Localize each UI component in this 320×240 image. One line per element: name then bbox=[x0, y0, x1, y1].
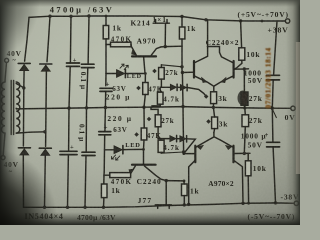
resistor 10k top bbox=[239, 48, 245, 60]
wire K214 node to 1k bbox=[165, 45, 182, 47]
resistor 3k top bbox=[211, 92, 217, 104]
long vertical feedback line bbox=[182, 46, 184, 153]
transformer T1 secondary bbox=[16, 82, 20, 133]
transistor Q6 A970 pair right bbox=[232, 146, 234, 163]
op wire: node down to LED wire / 220u bbox=[105, 74, 107, 86]
resistor 470K top bbox=[111, 42, 132, 47]
capacitor 220u top bbox=[100, 88, 112, 91]
capacitor 1000u/50V top chain bbox=[274, 21, 277, 75]
diode D3 bbox=[18, 147, 30, 149]
LED LED1 bbox=[117, 70, 125, 78]
resistor 47K top bbox=[144, 74, 146, 83]
capacitor 0.1u top bbox=[82, 64, 95, 67]
timestamp 07/01/2013 18:14 bbox=[264, 47, 272, 108]
resistor 1k bottom-right bbox=[182, 184, 188, 196]
capacitor 4700u bottom bbox=[60, 151, 77, 154]
transistor Q3 C2240 pair left bbox=[193, 61, 195, 78]
transformer core bbox=[10, 81, 12, 135]
capacitor 220u bottom bbox=[99, 132, 111, 135]
slash mark at 0V junction bbox=[271, 106, 276, 117]
wire V2 rectifier right bbox=[47, 16, 50, 62]
transformer T1 primary bbox=[5, 63, 7, 83]
diode bias3 bbox=[170, 136, 176, 142]
diode bias2 bbox=[180, 84, 186, 90]
wire J77 node to 1k bottom-right bbox=[166, 180, 184, 182]
wire V3 filter caps 4700u bbox=[69, 16, 72, 63]
wire bias diodes bottom row bbox=[158, 138, 170, 140]
capacitor 0.1u bottom bbox=[82, 152, 95, 155]
mosfet K214 bbox=[153, 22, 169, 24]
terminal 40V top bbox=[5, 58, 9, 62]
0V midline bbox=[17, 107, 291, 109]
resistor 4.7k top bbox=[160, 87, 161, 92]
diode D2 bbox=[40, 63, 52, 65]
transistor Q4 C2240 pair right bbox=[233, 61, 235, 78]
diode bias4 bbox=[180, 136, 186, 142]
resistor 3k bottom bbox=[212, 117, 218, 129]
resistor 10k bottom bbox=[245, 161, 251, 176]
resistor 470K bottom bbox=[110, 173, 131, 178]
wire V4 0.1u caps bbox=[87, 16, 90, 64]
terminal 40V bottom bbox=[1, 156, 5, 160]
capacitor 4700u top bbox=[67, 63, 80, 66]
vignette bands bbox=[0, 0, 17, 225]
capacitor 1000u/50V bottom chain bbox=[271, 108, 274, 142]
terminal 0V bbox=[291, 106, 295, 110]
resistor 27k mid-bottom bbox=[151, 107, 158, 115]
wire secondary center tap bbox=[15, 107, 17, 110]
lower mirror: wire midline to 220u bottom bbox=[104, 108, 106, 126]
resistor 27k mid-top bbox=[160, 65, 162, 68]
wire secondary bottom lead bbox=[16, 132, 45, 133]
transistor Q1 A970 driver bbox=[132, 55, 156, 57]
transistor Q2 C2240 driver bbox=[132, 164, 156, 166]
resistor 27k right-top (ink blob) bbox=[241, 92, 248, 105]
resistor 27k right-bottom bbox=[242, 115, 249, 127]
terminal +rail bbox=[285, 19, 289, 23]
diode D1 bbox=[18, 62, 30, 64]
diode bias1 bbox=[170, 84, 176, 90]
top +rail bus bbox=[29, 16, 285, 21]
wire LED1 row bbox=[106, 73, 117, 75]
LED LED2 bbox=[114, 146, 122, 154]
resistor 1k top-left bbox=[105, 16, 107, 26]
bottom -rail bus bbox=[24, 203, 295, 207]
resistor 47K bottom bbox=[143, 107, 145, 128]
wire secondary top lead bbox=[16, 84, 24, 88]
diamond junction marks bbox=[134, 69, 210, 137]
resistor 1k bottom-left bbox=[103, 175, 105, 184]
wire bias diodes top row bbox=[161, 86, 170, 88]
diode D4 bbox=[39, 147, 51, 149]
transistor Q5 A970 pair left bbox=[194, 146, 196, 163]
wire V1 rectifier left bbox=[25, 17, 29, 61]
mosfet J77 bbox=[165, 179, 168, 182]
resistor 4.7k bottom bbox=[160, 139, 162, 141]
wire LED2 row bbox=[105, 149, 115, 151]
resistor 1k top-right bbox=[181, 17, 183, 28]
terminal -rail bbox=[294, 201, 298, 205]
